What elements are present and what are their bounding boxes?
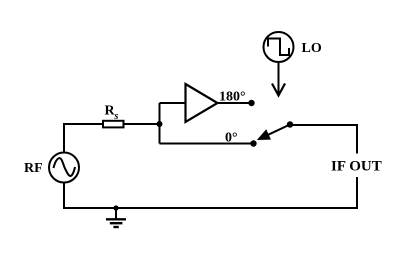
LO arrow to switch bbox=[278, 63, 280, 93]
wire from RF top to resistor bbox=[64, 123, 102, 125]
amplifier U1 bbox=[186, 84, 218, 122]
svg-text:RF: RF bbox=[24, 161, 43, 176]
node junction A bbox=[157, 121, 163, 127]
node 0 bbox=[250, 140, 256, 146]
switch S1 arrowhead bbox=[258, 130, 270, 139]
wire 0deg path bbox=[160, 143, 254, 145]
wire left vertical top bbox=[63, 123, 65, 152]
node 180 bbox=[248, 100, 254, 106]
wire amplifier output bbox=[216, 102, 251, 104]
wire right vertical lower bbox=[356, 177, 358, 209]
switch S1 pivot node bbox=[287, 121, 293, 127]
svg-text:180°: 180° bbox=[219, 90, 246, 105]
source RF bbox=[49, 153, 79, 183]
switch S1 arm bbox=[267, 125, 290, 136]
wire switch pivot to right bbox=[290, 124, 358, 126]
svg-text:LO: LO bbox=[302, 41, 322, 56]
svg-text:0°: 0° bbox=[225, 131, 238, 146]
node ground junction bbox=[113, 205, 118, 210]
ground bbox=[106, 208, 126, 227]
wire left vertical bottom bbox=[63, 183, 65, 210]
wire resistor to junction bbox=[124, 123, 160, 125]
wire right vertical upper bbox=[356, 124, 358, 154]
svg-text:IF OUT: IF OUT bbox=[331, 159, 382, 175]
wire bottom horizontal bbox=[64, 207, 357, 209]
wire to amplifier input bbox=[160, 102, 186, 104]
svg-text:s: s bbox=[114, 111, 119, 122]
wire junction vertical bbox=[159, 103, 161, 144]
source LO bbox=[264, 32, 294, 62]
resistor R_s bbox=[103, 121, 124, 128]
